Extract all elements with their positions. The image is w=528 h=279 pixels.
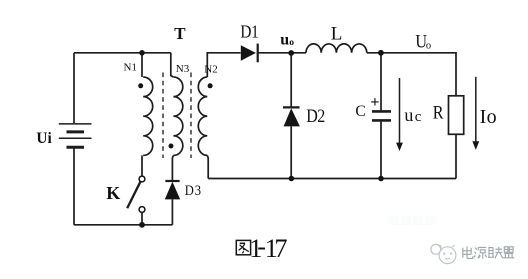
svg-text:o: o — [426, 40, 431, 51]
svg-text:R: R — [433, 101, 444, 123]
svg-text:N3: N3 — [176, 63, 190, 75]
svg-text:K: K — [106, 183, 120, 203]
svg-text:u: u — [280, 32, 289, 49]
svg-text:D1: D1 — [240, 22, 258, 42]
svg-text:o: o — [487, 106, 497, 128]
svg-text:N1: N1 — [124, 62, 137, 74]
svg-text:N2: N2 — [204, 63, 217, 75]
svg-text:c: c — [415, 109, 422, 125]
svg-text:C: C — [355, 103, 365, 120]
svg-text:D2: D2 — [306, 106, 325, 126]
svg-text:o: o — [289, 38, 294, 48]
svg-text:+: + — [370, 94, 379, 111]
svg-text:u: u — [404, 105, 413, 125]
svg-text:7: 7 — [274, 234, 287, 263]
svg-text:L: L — [331, 24, 343, 45]
svg-text:T: T — [174, 24, 186, 43]
svg-text:D3: D3 — [185, 182, 202, 198]
svg-text:I: I — [480, 106, 487, 128]
svg-text:Ui: Ui — [36, 130, 52, 147]
